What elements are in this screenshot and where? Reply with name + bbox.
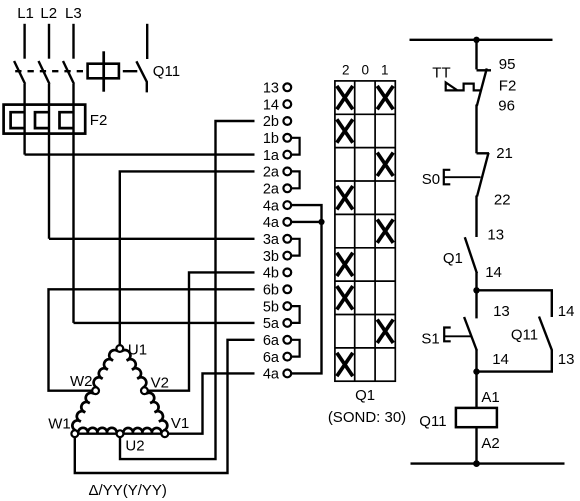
terminal circle 4a row 18 (283, 370, 291, 378)
wire 4a link bus right side (292, 205, 322, 373)
svg-text:L2: L2 (40, 5, 57, 22)
svg-text:4a: 4a (263, 198, 280, 214)
wire bottom chord W1-V1 (78, 433, 161, 435)
wire L2 to 3a (49, 238, 255, 240)
svg-text:4a: 4a (263, 367, 280, 383)
jumper bracket 5b-5a rows 14-15 (292, 306, 300, 323)
svg-text:1b: 1b (263, 131, 279, 147)
svg-text:6a: 6a (263, 350, 280, 366)
cam table X mark row 7 col 1 (337, 286, 353, 309)
wire L1 to 1a (25, 153, 255, 155)
cam table grid (335, 81, 395, 381)
svg-text:W2: W2 (70, 373, 93, 390)
pushbutton S0 cap (444, 170, 451, 185)
svg-text:Q11: Q11 (419, 413, 446, 430)
terminal circle 2b row 3 (283, 117, 291, 125)
svg-text:F2: F2 (90, 112, 108, 129)
svg-text:2b: 2b (263, 114, 279, 130)
svg-text:L3: L3 (65, 5, 82, 22)
svg-text:95: 95 (499, 56, 516, 73)
terminal circle 6a row 17 (283, 353, 291, 361)
F2 heater element 2 (35, 112, 49, 128)
svg-text:14: 14 (492, 351, 509, 368)
junction bottom rail (473, 460, 480, 467)
svg-text:1: 1 (381, 63, 389, 78)
svg-text:S0: S0 (422, 171, 440, 188)
svg-text:14: 14 (263, 97, 279, 113)
terminal circle 1b row 4 (283, 134, 291, 142)
svg-text:L1: L1 (17, 5, 34, 22)
cam table X mark row 8 col 3 (377, 320, 393, 343)
cam table X mark row 4 col 1 (337, 186, 353, 209)
wire L3 to 5a (74, 322, 255, 324)
svg-text:U2: U2 (125, 438, 144, 455)
contact S0 NC blade (477, 153, 489, 197)
junction branch bottom (473, 368, 479, 374)
winding W2-W1 coil (72, 393, 94, 431)
wire F2 to S0 (475, 105, 477, 154)
terminal circle 4b row 12 (283, 269, 291, 277)
winding U2-V1 coil humps (123, 428, 161, 434)
thermal release symbol (446, 83, 481, 91)
svg-text:2a: 2a (263, 165, 280, 181)
svg-text:4b: 4b (263, 266, 279, 282)
wire U1 riser to 2a (120, 171, 255, 345)
wire rail to F2 contact (475, 40, 477, 70)
pushbutton S0 actuator (444, 176, 481, 178)
terminal circle 3b row 11 (283, 252, 291, 260)
svg-text:3a: 3a (263, 232, 280, 248)
wire node to S1 (475, 290, 477, 318)
jumper bracket 1b-1a rows 4-5 (292, 138, 300, 155)
winding U1-V2 coil (122, 350, 147, 388)
wire L2 drop (48, 24, 50, 59)
terminal circle V2 (141, 387, 148, 394)
coil Q11 (456, 408, 497, 427)
wire W1 riser to 6a (75, 340, 255, 473)
wire Q1 to branch node (475, 273, 477, 291)
wire branch top rail (477, 290, 552, 317)
pushbutton S1 cap (444, 328, 451, 342)
wire phase 1 through F2 (23, 84, 25, 155)
terminal circle W1 (71, 430, 78, 437)
wire node to coil A1 (475, 372, 477, 408)
svg-text:6a: 6a (263, 333, 280, 349)
contact S1 NO blade (464, 317, 477, 351)
svg-text:3b: 3b (263, 249, 279, 265)
svg-text:F2: F2 (499, 78, 517, 95)
terminal circle 5b row 14 (283, 302, 291, 310)
svg-text:Q1: Q1 (355, 387, 375, 404)
svg-text:Q11: Q11 (153, 63, 180, 80)
svg-text:13: 13 (263, 81, 279, 97)
svg-text:13: 13 (558, 351, 575, 368)
svg-text:21: 21 (496, 145, 513, 162)
cam table X mark row 9 col 1 (337, 353, 353, 376)
svg-text:U1: U1 (128, 342, 147, 359)
wire V1 riser to 4a (168, 373, 254, 433)
svg-text:6b: 6b (263, 283, 279, 299)
terminal circle 4a row 8 (283, 201, 291, 209)
svg-text:5a: 5a (263, 316, 280, 332)
terminal circle V1 (161, 430, 168, 437)
terminal circle 6a row 16 (283, 336, 291, 344)
jumper bracket 6a-6a rows 16-17 (292, 340, 300, 357)
pin 21 tick (477, 152, 490, 154)
svg-text:Q1: Q1 (443, 250, 463, 267)
winding V2-V1 coil (146, 393, 167, 431)
junction branch top (473, 287, 479, 293)
svg-text:13: 13 (487, 227, 504, 244)
contact Q11 main pole 1 blade (14, 61, 25, 84)
wire bottom supply rail (411, 462, 565, 464)
terminal circle 4a row 9 (283, 218, 291, 226)
wire Q11 branch bottom (477, 350, 552, 372)
cam table X mark row 2 col 1 (337, 119, 353, 142)
F2 heater element 3 (60, 112, 74, 128)
terminal circle 6b row 13 (283, 285, 291, 293)
terminal circle 2a row 7 (283, 184, 291, 192)
contact Q11 aux top wire (146, 24, 148, 59)
svg-text:2: 2 (342, 63, 350, 78)
contact Q11 main pole 2 blade (39, 61, 50, 84)
terminal circle 3a row 10 (283, 235, 291, 243)
jumper bracket 3a-3b rows 10-11 (292, 239, 300, 256)
svg-text:14: 14 (558, 303, 575, 320)
wire top supply rail (410, 39, 553, 41)
mechanical linkage dash to Q11 aux (123, 70, 138, 72)
winding U1-W2 coil (94, 350, 118, 388)
wire 4a row9 stub (292, 221, 322, 223)
terminal circle W2 (92, 387, 99, 394)
terminal circle 5a row 15 (283, 319, 291, 327)
junction 4a bus (318, 219, 324, 225)
cam table X mark row 3 col 3 (377, 153, 393, 176)
svg-text:1a: 1a (263, 148, 280, 164)
pin 95 tick (477, 69, 492, 71)
cam table X mark row 1 col 3 (377, 86, 393, 109)
svg-text:(SOND: 30): (SOND: 30) (328, 409, 406, 426)
junction top rail (473, 37, 479, 43)
svg-text:96: 96 (498, 97, 515, 114)
svg-text:Q11: Q11 (511, 326, 538, 343)
terminal circle 13 row 1 (283, 83, 291, 91)
contact F2 NC blade (477, 68, 487, 106)
wire phase 2 through F2 (48, 84, 50, 239)
operating mechanism box (88, 64, 119, 79)
svg-text:4a: 4a (263, 215, 280, 231)
svg-text:2a: 2a (263, 182, 280, 198)
terminal circle U1 (116, 345, 123, 352)
wire W2 riser to 6b (49, 289, 255, 390)
contact Q11 aux blade (136, 61, 146, 92)
wire L1 drop (23, 24, 25, 59)
wire V2 riser to 4b (148, 272, 255, 390)
operating mechanism actuator line (102, 51, 105, 91)
cam table X mark row 6 col 1 (337, 253, 353, 276)
terminal circle U2 (117, 430, 124, 437)
cam table X mark row 5 col 3 (377, 219, 393, 242)
cam table X mark row 1 col 1 (337, 86, 353, 109)
svg-text:W1: W1 (48, 416, 70, 433)
wire coil A2 to bottom rail (475, 427, 477, 463)
wire L3 drop (72, 24, 74, 59)
contact Q11 aux2 NO blade (539, 317, 552, 351)
svg-text:13: 13 (493, 303, 510, 320)
svg-text:S1: S1 (421, 330, 439, 347)
svg-text:A2: A2 (481, 435, 499, 452)
winding W1-U2 coil humps (78, 428, 117, 434)
contact Q11 main pole 3 blade (63, 61, 74, 84)
wire phase 3 through F2 (72, 84, 74, 323)
wire U2 riser to 2b (120, 121, 255, 459)
pushbutton S1 actuator (444, 335, 471, 337)
F2 heater element 1 (11, 112, 25, 128)
svg-text:14: 14 (485, 264, 502, 281)
mechanical linkage dashed line (15, 70, 87, 72)
thermal overload relay F2 box (4, 105, 86, 134)
terminal circle 1a row 5 (283, 151, 291, 159)
svg-text:A1: A1 (481, 389, 499, 406)
wire S0 to Q1 (475, 196, 477, 238)
contact Q1 NO blade (465, 237, 477, 273)
terminal circle 14 row 2 (283, 100, 291, 108)
wire S1 to branch bottom node (475, 350, 477, 372)
jumper bracket 2a-2a rows 6-7 (292, 171, 300, 188)
svg-text:V1: V1 (171, 415, 189, 432)
svg-text:Δ/YY(Y/YY): Δ/YY(Y/YY) (89, 482, 167, 499)
terminal circle 2a row 6 (283, 168, 291, 176)
svg-text:V2: V2 (151, 375, 169, 392)
svg-text:5b: 5b (263, 299, 279, 315)
svg-text:0: 0 (362, 63, 370, 78)
svg-text:22: 22 (494, 192, 511, 209)
svg-text:TT: TT (432, 65, 450, 82)
